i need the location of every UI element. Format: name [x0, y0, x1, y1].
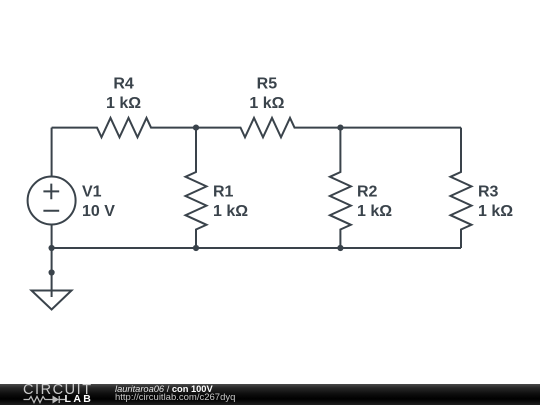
svg-text:1 kΩ: 1 kΩ: [478, 203, 513, 220]
svg-text:R3: R3: [478, 184, 499, 201]
svg-text:R5: R5: [257, 76, 278, 93]
svg-text:R1: R1: [213, 184, 234, 201]
svg-text:1 kΩ: 1 kΩ: [106, 95, 141, 112]
svg-text:1 kΩ: 1 kΩ: [213, 203, 248, 220]
svg-text:1 kΩ: 1 kΩ: [249, 95, 284, 112]
svg-text:10 V: 10 V: [82, 203, 115, 220]
svg-text:R2: R2: [357, 184, 378, 201]
svg-text:R4: R4: [113, 76, 134, 93]
svg-text:V1: V1: [82, 184, 102, 201]
svg-text:1 kΩ: 1 kΩ: [357, 203, 392, 220]
